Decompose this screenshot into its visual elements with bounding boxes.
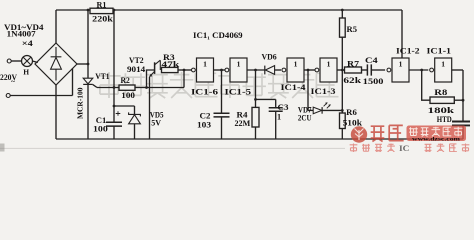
thyristor VT1 MCR-100 <box>83 78 93 84</box>
svg-text:1: 1 <box>441 59 445 68</box>
svg-text:1: 1 <box>294 59 298 68</box>
junction base lead <box>145 86 148 89</box>
svg-text:100: 100 <box>93 125 108 134</box>
svg-text:R5: R5 <box>347 25 358 34</box>
capacitor C4 <box>367 64 371 75</box>
wire R5 top lead <box>341 10 343 18</box>
svg-text:IC1₁ CD4069: IC1₁ CD4069 <box>193 30 243 40</box>
wire bottom ground rail <box>56 138 463 140</box>
svg-text:MCR-100: MCR-100 <box>76 87 85 119</box>
capacitor C3 <box>269 108 283 112</box>
wire VT1 cathode <box>87 84 89 139</box>
wire VT1 gate <box>93 85 97 88</box>
svg-text:C2: C2 <box>200 112 211 121</box>
svg-text:2CU: 2CU <box>298 114 312 123</box>
wire IC1-1 out <box>452 69 463 71</box>
wire R8 right lead <box>454 99 463 101</box>
svg-text:VD6: VD6 <box>262 53 277 62</box>
svg-text:1: 1 <box>237 59 241 68</box>
piezo sounder HTD <box>452 122 470 126</box>
wire C3 top lead <box>275 99 277 107</box>
svg-text:1: 1 <box>277 113 281 122</box>
wire IC1-3 out <box>337 69 345 71</box>
svg-text:22M: 22M <box>235 119 251 128</box>
svg-text:~: ~ <box>11 77 15 86</box>
wire riser to IC1-6 input <box>183 70 185 88</box>
svg-text:5V: 5V <box>151 118 161 127</box>
bridge rectifier VD1-VD4 <box>35 43 77 85</box>
svg-text:R2: R2 <box>121 76 130 85</box>
scan artifact bottom line <box>0 147 345 149</box>
red brand glyph 2 <box>389 125 403 140</box>
inverter IC1-3 <box>315 68 319 72</box>
junction R8 tap <box>420 69 423 72</box>
svg-text:R7: R7 <box>347 59 359 68</box>
resistor R4 <box>252 107 259 127</box>
wire C1 bottom lead <box>113 126 115 139</box>
wire lower AC <box>10 95 72 97</box>
wire VT1 anode <box>87 10 89 78</box>
resistor R5 <box>340 18 346 37</box>
wire R2 to riser <box>135 87 184 89</box>
red watermark logo <box>351 126 367 142</box>
wire C1 top lead <box>113 88 115 123</box>
svg-text:VT2: VT2 <box>129 56 144 65</box>
wire bridge to VT1 anode node <box>77 63 88 65</box>
wire to LED <box>308 109 313 111</box>
svg-text:R1: R1 <box>97 0 107 9</box>
wire C2 bottom lead <box>221 117 223 139</box>
capacitor C1 <box>106 122 122 126</box>
watermark glyph <box>243 73 266 95</box>
watermark glyph <box>218 72 241 98</box>
svg-text:H: H <box>23 68 29 77</box>
svg-text:1: 1 <box>203 59 207 68</box>
terminal AC lower <box>6 94 10 98</box>
svg-text:1500: 1500 <box>363 77 384 86</box>
inverter IC1-4 <box>282 68 286 72</box>
junction C2 tap <box>220 69 223 72</box>
wire branch to C3 <box>256 98 276 100</box>
svg-text:510k: 510k <box>343 119 363 128</box>
svg-text:IC1-6: IC1-6 <box>191 88 218 97</box>
inverter IC1-5 <box>225 68 229 72</box>
resistor R1 <box>90 8 113 13</box>
wire IC1-4 out <box>304 69 316 71</box>
svg-text:1: 1 <box>327 59 331 68</box>
svg-text:220k: 220k <box>92 14 113 23</box>
inverter IC1-2 <box>387 68 391 72</box>
svg-text:62k: 62k <box>343 76 361 85</box>
junction R5/R6/R7 <box>341 69 344 72</box>
wire R6 bottom lead <box>341 129 343 140</box>
junction LED/R6 <box>341 109 344 112</box>
svg-text:IC1-4: IC1-4 <box>281 83 307 92</box>
wire gate node to R2 <box>97 87 119 89</box>
watermark glyph <box>97 72 120 98</box>
watermark glyph <box>316 73 338 96</box>
resistor R7 <box>345 67 362 73</box>
wire terminal to lamp <box>11 60 22 62</box>
wire C4 to IC1-2 <box>371 69 385 71</box>
wire IC1-5 out to VD6 <box>247 69 265 71</box>
wire R8 left lead <box>422 70 430 100</box>
zener diode VD5 <box>129 112 141 116</box>
wire output drop to HTD <box>462 70 464 121</box>
wire R4 bottom lead <box>255 127 257 139</box>
svg-text:C3: C3 <box>278 103 289 112</box>
slogan glyph <box>437 144 445 153</box>
junction R3/IC1-6 input <box>183 69 186 72</box>
wire C3 bottom lead <box>275 111 277 139</box>
watermark glyph <box>291 72 314 98</box>
junction C3 branch <box>254 98 257 101</box>
svg-text:IC1-3: IC1-3 <box>311 87 336 96</box>
wire IC1-2 out <box>409 69 428 71</box>
wire LED to R6 node <box>322 109 342 111</box>
red brand glyph 1 <box>371 126 385 141</box>
slogan glyph <box>462 144 470 153</box>
slogan glyph <box>362 144 370 151</box>
svg-text:IC1-1: IC1-1 <box>427 47 452 56</box>
svg-text:IC1-2: IC1-2 <box>396 47 420 56</box>
transistor VT2 9014 <box>154 62 156 74</box>
slogan glyph <box>375 144 382 152</box>
wire branch to VD5 <box>114 105 135 107</box>
wire VD5 anode lead <box>134 124 136 139</box>
watermark glyph <box>170 72 193 98</box>
svg-text:100: 100 <box>121 91 135 100</box>
slogan glyph <box>387 144 395 153</box>
svg-text:C4: C4 <box>365 56 378 65</box>
terminal AC upper <box>7 59 11 63</box>
junction rail/R5 <box>341 9 344 12</box>
slogan glyph <box>350 144 358 153</box>
wire top supply rail <box>56 9 402 11</box>
svg-text:IC: IC <box>399 144 410 152</box>
resistor R3 <box>162 67 179 72</box>
banner glyph <box>454 127 463 137</box>
svg-text:HTD: HTD <box>437 115 452 124</box>
svg-text:180k: 180k <box>428 106 455 115</box>
wire VD6 to IC1-4 <box>275 69 282 71</box>
banner glyph <box>409 127 418 135</box>
svg-text:×4: ×4 <box>22 39 33 48</box>
junction LED tap <box>307 69 310 72</box>
svg-text:9014: 9014 <box>127 65 145 74</box>
junction bridge/VT1 <box>87 63 90 66</box>
watermark glyph <box>122 73 145 95</box>
watermark glyph <box>195 73 217 96</box>
junction C1/VD5 branch <box>113 105 116 108</box>
svg-text:1N4007: 1N4007 <box>7 30 36 39</box>
wire C2 top lead <box>221 70 223 113</box>
inverter IC1-1 <box>430 68 434 72</box>
resistor R2 <box>119 85 135 90</box>
wire rail drop to IC1-2 <box>401 10 403 58</box>
junction R8/output <box>462 99 465 102</box>
wire R4 top lead <box>255 70 257 107</box>
inverter IC1-6 <box>192 68 196 72</box>
junction rail/VT1 <box>87 9 90 12</box>
junction node W1/C1 <box>113 86 116 89</box>
banner glyph <box>443 127 451 136</box>
wire VD5 cathode lead <box>134 106 136 114</box>
svg-text:www.dzsc.com: www.dzsc.com <box>412 136 460 142</box>
wire bridge minus lead <box>55 85 57 139</box>
svg-text:103: 103 <box>197 120 211 129</box>
resistor R8 <box>430 97 454 103</box>
wire bridge plus lead <box>55 10 57 43</box>
wire LED branch drop <box>307 70 309 110</box>
wire R1 right lead <box>113 10 115 88</box>
watermark glyph <box>268 75 289 98</box>
wire R7 to C4 <box>362 69 368 71</box>
slogan glyph <box>450 144 457 152</box>
junction rail/R1 right <box>113 9 116 12</box>
wire IC1-6 out <box>214 69 226 71</box>
svg-text:47k: 47k <box>161 60 179 69</box>
slogan glyph <box>425 144 432 152</box>
watermark glyph <box>147 75 168 98</box>
resistor R6 <box>340 113 346 129</box>
wire VT2 base lead <box>147 70 155 88</box>
junction R4 tap <box>254 69 257 72</box>
wire lower AC riser to bridge <box>72 68 74 95</box>
wire R5 bottom lead <box>341 37 343 70</box>
red watermark banner <box>407 126 467 142</box>
wire R6 top lead <box>341 70 343 113</box>
banner glyph <box>431 127 440 137</box>
svg-text:R6: R6 <box>346 108 357 117</box>
svg-text:VT1: VT1 <box>95 72 109 81</box>
capacitor C2 <box>214 113 230 117</box>
wire HTD to ground <box>462 125 464 139</box>
svg-text:R8: R8 <box>434 88 447 97</box>
wire lamp to bridge <box>32 61 37 63</box>
wire R3 to IC1-6 <box>178 69 191 71</box>
banner glyph <box>421 128 429 137</box>
LED VD7 2CU <box>313 107 322 114</box>
diode VD6 <box>264 66 266 75</box>
svg-text:1: 1 <box>399 59 403 68</box>
wire VT2 emitter to ground <box>149 77 151 139</box>
lamp H <box>22 56 33 67</box>
svg-text:IC1-5: IC1-5 <box>225 88 252 97</box>
